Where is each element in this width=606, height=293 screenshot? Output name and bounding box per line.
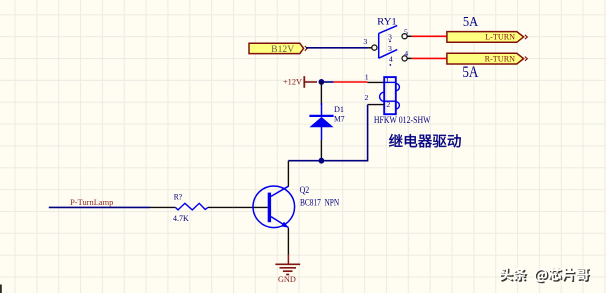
svg-text:2: 2	[365, 93, 369, 102]
svg-text:B12V: B12V	[271, 44, 294, 54]
wire pin4 to R-TURN	[407, 57, 412, 59]
wire P-TurnLamp to resistor	[49, 206, 150, 208]
wire node B down to Q2 collector	[287, 161, 289, 187]
svg-text:2: 2	[386, 100, 390, 109]
port L-TURN	[447, 32, 527, 43]
port R-TURN	[447, 53, 527, 64]
svg-text:5: 5	[404, 27, 408, 36]
coil bumps	[396, 84, 400, 91]
power port +12V	[283, 76, 317, 88]
pin 5 circle	[402, 34, 407, 39]
wire pin5 to L-TURN	[407, 35, 412, 37]
svg-text:L-TURN: L-TURN	[485, 33, 515, 42]
svg-text:3: 3	[363, 37, 367, 46]
wire B12V to relay common	[306, 47, 368, 49]
collector lead	[271, 186, 289, 196]
transistor Q2 BC817 NPN	[253, 185, 339, 227]
svg-text:BC817 NPN: BC817 NPN	[300, 199, 339, 209]
svg-text:3: 3	[388, 44, 392, 53]
junction B	[319, 158, 325, 164]
wire diode to bottom node	[320, 140, 322, 161]
relay RY1 contact assembly	[363, 18, 408, 66]
watermark 头条@芯片哥	[499, 268, 590, 284]
svg-text:+12V: +12V	[283, 77, 302, 86]
armature bar	[378, 33, 380, 58]
svg-text:4: 4	[389, 54, 393, 63]
svg-text:M7: M7	[334, 114, 345, 123]
svg-text:D1: D1	[334, 105, 344, 114]
wire red to coil pin 1	[334, 81, 368, 83]
resistor R? 4.7K	[150, 193, 234, 224]
svg-text:3: 3	[388, 33, 392, 42]
svg-text:1: 1	[386, 76, 390, 85]
junction A (+12V node)	[319, 79, 325, 85]
blade upper	[379, 26, 398, 34]
svg-text:HFKW 012-SHW: HFKW 012-SHW	[374, 116, 431, 126]
wire coil pin2 down and across to node B	[288, 105, 367, 161]
coil pin 1 lead	[367, 81, 384, 83]
port B12V	[249, 43, 307, 54]
pin 3 circle	[372, 45, 377, 50]
svg-text:4.7K: 4.7K	[173, 213, 189, 223]
edge mark	[0, 285, 2, 293]
ground GND	[275, 254, 300, 284]
wire Q2 emitter down	[287, 228, 289, 255]
relay coil RY1 HFKW 012-SHW	[365, 76, 431, 126]
svg-text:R?: R?	[174, 193, 183, 202]
svg-text:R-TURN: R-TURN	[485, 55, 516, 64]
svg-text:5A: 5A	[463, 14, 478, 29]
wire +12V node down to diode	[320, 82, 322, 105]
wire resistor to Q2 base	[234, 206, 268, 208]
svg-text:5A: 5A	[462, 62, 478, 81]
diode D1	[309, 103, 344, 140]
svg-text:P-TurnLamp: P-TurnLamp	[70, 198, 113, 207]
label 继电器驱动	[389, 134, 461, 148]
pin 4 circle	[402, 56, 407, 61]
emitter lead	[271, 217, 289, 228]
svg-text:Q2: Q2	[300, 185, 310, 195]
svg-text:GND: GND	[278, 275, 296, 284]
wire junction to red segment	[321, 81, 333, 83]
coil pin 2 lead	[368, 104, 385, 106]
svg-text:1: 1	[365, 72, 369, 81]
svg-text:4: 4	[404, 49, 408, 58]
blade lower	[379, 50, 398, 59]
